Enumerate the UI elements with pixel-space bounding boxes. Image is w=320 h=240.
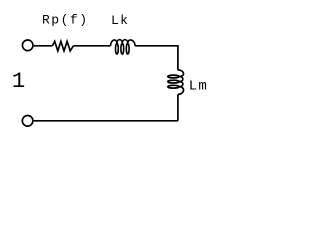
svg-text:Lm: Lm	[189, 79, 208, 95]
port 1 bottom terminal circle	[22, 116, 33, 127]
bottom wire	[34, 120, 178, 122]
port 1 top terminal circle	[22, 40, 33, 51]
inductor Lk	[111, 40, 135, 55]
resistor Rp(f)	[52, 41, 73, 51]
wire Lk to top-right corner and down	[135, 46, 178, 70]
svg-text:1: 1	[12, 68, 26, 94]
svg-text:Rp(f): Rp(f)	[42, 12, 89, 27]
svg-text:Lk: Lk	[111, 13, 129, 28]
wire Lm to bottom-right corner	[177, 94, 179, 120]
wire top terminal to resistor	[34, 45, 53, 47]
inductor Lm	[168, 70, 184, 95]
wire resistor to inductor Lk	[73, 45, 110, 47]
